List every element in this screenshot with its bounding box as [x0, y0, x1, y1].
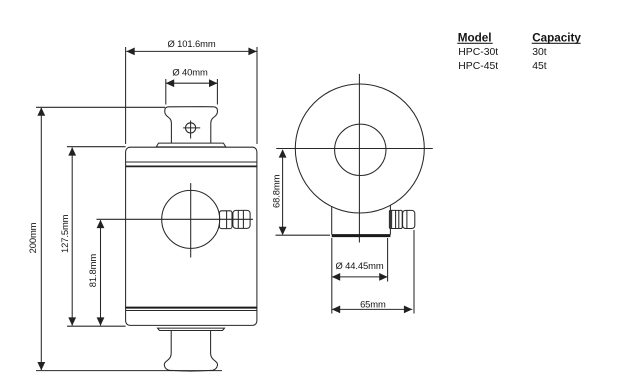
- front horizontal centerline: [97, 218, 254, 220]
- side horizontal centerline: [276, 148, 433, 150]
- svg-text:Capacity: Capacity: [532, 31, 581, 44]
- front connector thread ridge 2: [242, 210, 244, 228]
- extension line Ø44.45 right: [387, 238, 389, 282]
- extension line Ø44.45 left / 65mm left: [331, 238, 333, 314]
- svg-text:Ø 40mm: Ø 40mm: [172, 67, 208, 78]
- table header Model underline: [457, 42, 492, 44]
- svg-text:127.5mm: 127.5mm: [59, 214, 70, 253]
- svg-text:Ø 101.6mm: Ø 101.6mm: [167, 38, 215, 49]
- reference line 200mm bottom: [36, 370, 222, 372]
- dimension Ø101.6mm line: [126, 50, 256, 52]
- extension line 65mm right: [413, 230, 415, 314]
- dimension 200mm vertical line: [40, 108, 42, 370]
- dimension Ø40mm line: [166, 82, 218, 84]
- svg-text:30t: 30t: [532, 47, 547, 58]
- front vertical centerline: [190, 183, 192, 257]
- dimension 81.8mm vertical line: [100, 220, 102, 325]
- dimension 127.5mm bottom arrow: [68, 317, 76, 325]
- side connector part2 ridge: [406, 210, 408, 228]
- pedestal left side: [331, 206, 333, 234]
- svg-text:HPC-30t: HPC-30t: [458, 47, 498, 58]
- svg-text:65mm: 65mm: [360, 298, 386, 309]
- top button crosshair vertical: [190, 121, 192, 139]
- side connector part 1: [389, 210, 402, 228]
- top flange: [156, 143, 226, 147]
- dimension 68.8mm vertical line: [282, 150, 284, 234]
- side connector part1 ridge 3: [398, 210, 400, 228]
- dimension Ø40mm left arrow: [166, 79, 174, 87]
- dimension 65mm left arrow: [332, 306, 340, 314]
- extension line Ø40 right: [216, 79, 218, 105]
- svg-text:68.8mm: 68.8mm: [270, 174, 281, 208]
- svg-text:Model: Model: [458, 31, 492, 44]
- reference line 200mm top: [36, 106, 165, 108]
- dimension 127.5mm top arrow: [68, 147, 76, 155]
- dimension 200mm bottom arrow: [37, 362, 45, 370]
- pedestal bottom thick line: [332, 234, 391, 237]
- dimension Ø44.45 right arrow: [379, 273, 387, 281]
- svg-text:45t: 45t: [532, 61, 547, 72]
- extension line Ø40 left: [165, 79, 167, 105]
- svg-text:200mm: 200mm: [27, 222, 38, 253]
- body top double line 1: [126, 161, 257, 163]
- top button crosshair horizontal: [183, 127, 200, 129]
- dimension 65mm right arrow: [404, 306, 412, 314]
- dimension Ø44.45mm line: [332, 276, 388, 278]
- extension line Ø101.6 left: [125, 47, 127, 144]
- reference line 127.5mm bottom: [67, 325, 126, 327]
- dimension 68.8mm bottom arrow: [279, 227, 287, 235]
- reference line 68.8mm bottom: [276, 234, 331, 236]
- side connector part1 ridge 2: [395, 210, 397, 228]
- bottom flange: [158, 328, 225, 330]
- extension line Ø101.6 right: [256, 47, 258, 144]
- front connector threaded body: [233, 210, 250, 228]
- top button crosshair circle: [186, 123, 196, 133]
- side view outer circle: [295, 84, 424, 213]
- pedestal right side: [389, 205, 391, 235]
- body bottom double line 2: [126, 310, 257, 312]
- dimension 65mm line: [332, 308, 413, 310]
- top button outline: [165, 107, 218, 144]
- dimension Ø40mm right arrow: [209, 79, 217, 87]
- body top double line 2: [126, 165, 257, 167]
- front center circle: [162, 190, 220, 248]
- table header Capacity underline: [532, 42, 581, 44]
- dimension Ø44.45 left arrow: [332, 273, 340, 281]
- dimension 127.5mm vertical line: [71, 148, 73, 326]
- dimension 200mm top arrow: [37, 107, 45, 115]
- side connector part1 ridge 1: [391, 210, 393, 228]
- side connector part 2: [403, 210, 415, 228]
- side vertical centerline: [358, 74, 360, 243]
- svg-text:HPC-45t: HPC-45t: [458, 61, 498, 72]
- front connector collar: [220, 211, 233, 229]
- front connector thread ridge 1: [237, 210, 239, 228]
- bottom button outline: [164, 331, 217, 372]
- dimension Ø101.6mm right arrow: [248, 48, 256, 56]
- svg-text:81.8mm: 81.8mm: [87, 254, 98, 288]
- dimension Ø101.6mm left arrow: [126, 48, 134, 56]
- front connector collar ridge: [226, 211, 228, 229]
- side view inner circle: [335, 124, 386, 175]
- svg-text:Ø 44.45mm: Ø 44.45mm: [335, 260, 383, 271]
- dimension 81.8mm bottom arrow: [97, 317, 105, 325]
- dimension 68.8mm top arrow: [279, 149, 287, 157]
- dimension 81.8mm top arrow: [97, 220, 105, 228]
- load cell body outline: [126, 147, 257, 325]
- reference line 127.5mm top: [67, 146, 126, 148]
- body bottom double line 1: [126, 307, 257, 309]
